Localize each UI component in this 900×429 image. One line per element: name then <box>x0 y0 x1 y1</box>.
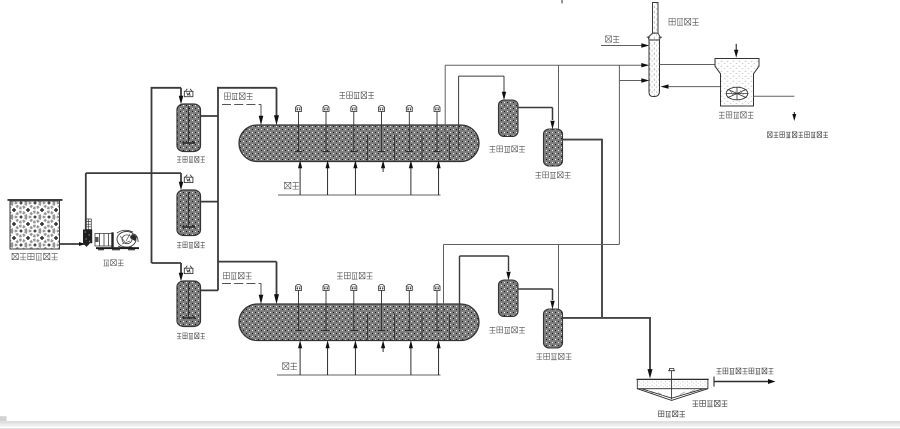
A1 riser to flash F1a <box>458 76 460 150</box>
feed branch to vessel 1 <box>151 87 181 89</box>
LP steam line train2 <box>222 282 261 284</box>
A2 riser to flash F1b <box>459 256 461 329</box>
iron removal thickener <box>637 379 708 388</box>
clean water line <box>601 45 644 47</box>
scrubber overflow to seal pot <box>660 64 716 66</box>
F2a label <box>536 172 571 178</box>
oxygen manifold train2 <box>277 374 441 376</box>
feed pump P-101 <box>85 219 91 230</box>
vessel R2 label <box>177 242 205 248</box>
feed branch manifold vertical <box>151 88 153 263</box>
vessel outlets to transfer header <box>201 115 219 117</box>
pump label <box>104 260 124 266</box>
vent arrow into seal pot <box>735 44 737 51</box>
vertical autoclave R3 <box>177 281 201 327</box>
motor symbol on R2 <box>184 177 193 182</box>
slurry line to thickener <box>563 317 651 319</box>
flash tank F1a <box>499 100 519 137</box>
vessel R3 label <box>177 333 205 339</box>
A1 vapour riser 1 <box>444 65 446 148</box>
thickener rake shaft <box>671 371 673 400</box>
motor symbol on R1 <box>184 91 193 96</box>
window chrome bottom bars <box>0 416 7 421</box>
A2 vapour riser 1 <box>443 245 445 328</box>
train2 vapour header <box>444 244 620 246</box>
horizontal autoclave A1 <box>239 125 479 162</box>
internal baffles A1 <box>367 135 369 161</box>
F1b to F2b line <box>518 288 553 290</box>
motor symbol on R3 <box>184 268 193 273</box>
horizontal autoclave A2 <box>239 304 479 341</box>
overflow note <box>717 368 774 374</box>
discharge arrow <box>793 112 795 115</box>
scrubber label <box>669 18 699 25</box>
tank label <box>12 253 58 260</box>
thickener label <box>693 400 728 406</box>
suction line tank to pump <box>60 243 85 245</box>
F2b vapour riser <box>558 245 560 310</box>
seal pot label <box>719 112 753 119</box>
vertical autoclave R2 <box>177 190 201 236</box>
LP steam line train1 <box>222 103 261 105</box>
train1 vapour header <box>445 64 643 66</box>
feed branch to vessel 3 <box>152 262 182 264</box>
F1a label <box>490 146 525 152</box>
flash tank F2b <box>544 309 563 348</box>
clean water label <box>606 36 620 43</box>
F1b label <box>490 327 525 333</box>
LP steam label train1 <box>225 93 253 100</box>
seal pot vessel <box>715 59 759 107</box>
thickener cone <box>637 389 708 401</box>
top valves and dip pipes A2 <box>298 291 300 331</box>
vessel R1 label <box>177 156 205 162</box>
overflow line to neutral leach <box>713 377 715 387</box>
stray tick mark top <box>561 0 563 3</box>
oxygen manifold train1 <box>278 194 441 196</box>
seal pot return line <box>664 86 721 88</box>
LP steam label train2 <box>224 272 252 279</box>
internal baffles A2 <box>367 314 369 340</box>
top valves and dip pipes A1 <box>298 112 300 152</box>
oxygen label train2 <box>283 363 297 370</box>
underflow label <box>659 411 685 417</box>
impeller symbol <box>726 87 748 100</box>
feed header to vessel 2 <box>86 172 181 174</box>
F2a liquid out <box>562 139 603 141</box>
flash tank F2a <box>544 129 563 166</box>
F2a vapour riser <box>558 65 560 129</box>
train2 vapour to scrubber <box>619 80 643 82</box>
flash tank F1b <box>499 280 519 317</box>
pump discharge riser <box>85 173 87 229</box>
vapour riser to scrubber <box>618 65 620 244</box>
transfer line to autoclave A1 <box>217 87 276 89</box>
autoclave A1 label <box>340 92 374 99</box>
transfer line to autoclave A2 <box>218 261 277 263</box>
autoclave A2 label <box>337 272 372 279</box>
vertical autoclave R1 <box>177 104 201 152</box>
oxygen label train1 <box>285 182 299 189</box>
discharge note <box>768 132 828 138</box>
vent scrubber column <box>653 3 659 34</box>
seal pot outlet <box>754 95 795 97</box>
feed slurry tank T-101 <box>8 199 63 201</box>
F1a to F2a line <box>518 107 553 109</box>
F2b label <box>537 353 572 359</box>
